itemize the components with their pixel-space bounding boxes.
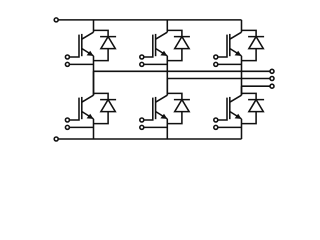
- wire: phase W node down to Q6 collector: [241, 86, 243, 95]
- wire: DC+ bus (P rail): [58, 19, 241, 21]
- wire: Q3 emitter down leg to low-side collector: [166, 56, 168, 95]
- wire: G6 to Q6 gate: [218, 118, 227, 121]
- wire: E3 to Q3 emitter: [144, 63, 168, 65]
- terminal: phase output V: [270, 77, 274, 81]
- transistor Q6 (IGBT): [227, 95, 242, 119]
- wire: E1 to Q1 emitter: [69, 63, 93, 65]
- auxiliary emitter terminal E6: [214, 125, 218, 129]
- auxiliary emitter terminal E4: [140, 125, 144, 129]
- wire: Q4 emitter down to DC- bus: [166, 119, 168, 139]
- diode D2 (free-wheel, anti-parallel with Q2): [94, 93, 117, 123]
- terminal: DC- (N): [54, 137, 58, 141]
- wire: E6 to Q6 emitter: [218, 126, 242, 128]
- wire: Q2 emitter down to DC- bus: [93, 119, 95, 139]
- wire: phase U node down to Q2 collector: [93, 71, 95, 95]
- wire: G4 to Q4 gate: [144, 118, 153, 121]
- wire: G3 to Q3 gate: [144, 55, 153, 58]
- auxiliary emitter terminal E2: [65, 125, 69, 129]
- gate terminal G5: [214, 55, 218, 59]
- terminal: phase output W: [270, 84, 274, 88]
- wire: G2 to Q2 gate: [69, 118, 79, 121]
- diode D5 (free-wheel, anti-parallel with Q5): [242, 30, 265, 60]
- wire: phase V output line: [167, 78, 270, 80]
- transistor Q2 (IGBT): [79, 95, 94, 119]
- wire: Q1 emitter down leg to low-side collector: [93, 56, 95, 95]
- wire: phase W output line: [242, 85, 271, 87]
- wire: phase V node down to Q4 collector: [166, 79, 168, 96]
- diode D3 (free-wheel, anti-parallel with Q3): [167, 30, 190, 60]
- wire: DC- bus (N rail): [58, 138, 241, 140]
- wire: G5 to Q5 gate: [218, 55, 227, 58]
- gate terminal G3: [140, 55, 144, 59]
- wire: E2 to Q2 emitter: [69, 126, 93, 128]
- gate terminal G2: [65, 118, 69, 122]
- wire: DC+ bus drop to Q5 collector: [241, 20, 243, 32]
- transistor Q4 (IGBT): [153, 95, 168, 119]
- gate terminal G4: [140, 118, 144, 122]
- auxiliary emitter terminal E1: [65, 62, 69, 66]
- wire: E5 to Q5 emitter: [218, 63, 242, 65]
- gate terminal G1: [65, 55, 69, 59]
- wire: G1 to Q1 gate: [69, 55, 79, 58]
- terminal: phase output U: [270, 69, 274, 73]
- wire: DC+ bus drop to Q3 collector: [166, 20, 168, 32]
- wire: phase U output line: [94, 70, 271, 72]
- diode D6 (free-wheel, anti-parallel with Q6): [242, 93, 265, 123]
- diode D1 (free-wheel, anti-parallel with Q1): [94, 30, 117, 60]
- auxiliary emitter terminal E5: [214, 62, 218, 66]
- wire: Q5 emitter down leg to low-side collector: [241, 56, 243, 95]
- terminal: DC+ (P): [54, 18, 58, 22]
- three-phase IGBT bridge (six-pack) schematic: [0, 0, 320, 160]
- wire: Q6 emitter down to DC- bus: [241, 119, 243, 139]
- auxiliary emitter terminal E3: [140, 62, 144, 66]
- wire: E4 to Q4 emitter: [144, 126, 168, 128]
- transistor Q3 (IGBT): [153, 32, 168, 56]
- transistor Q1 (IGBT): [79, 32, 94, 56]
- diode D4 (free-wheel, anti-parallel with Q4): [167, 93, 190, 123]
- transistor Q5 (IGBT): [227, 32, 242, 56]
- wire: DC+ bus drop to Q1 collector: [93, 20, 95, 32]
- gate terminal G6: [214, 118, 218, 122]
